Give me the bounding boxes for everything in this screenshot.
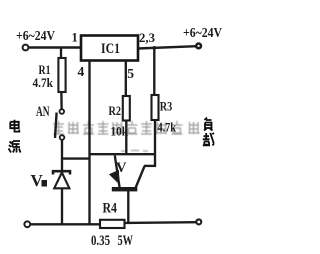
- resistor R3 body: [152, 95, 159, 120]
- svg-text:+6~24V: +6~24V: [183, 25, 222, 40]
- watermark text row (gray blurred company name): [53, 121, 200, 151]
- switch AN lever: [55, 113, 57, 139]
- wire: R3 bottom lead down: [154, 120, 156, 166]
- svg-text:4: 4: [78, 64, 85, 79]
- wire: switch bottom to zener: [61, 140, 63, 170]
- svg-text:5W: 5W: [118, 233, 134, 249]
- op IC1 box: [81, 36, 138, 61]
- resistor R4 body: [100, 220, 125, 228]
- svg-text:4.7k: 4.7k: [158, 120, 177, 135]
- svg-text:4.7k: 4.7k: [33, 75, 54, 90]
- wire: node row W1 (pin4 to R2/R3 bottoms): [90, 153, 155, 155]
- wire: collector corner horizontal: [144, 165, 156, 167]
- transistor V base bar: [112, 187, 138, 191]
- terminal: +V input left: [23, 45, 29, 51]
- svg-text:IC1: IC1: [101, 41, 120, 57]
- wire: bottom rail right segment: [125, 221, 197, 224]
- transistor V base lead down: [127, 191, 129, 224]
- wire: R1 bottom to switch: [60, 92, 63, 109]
- wire: left terminal to IC1 pin1: [28, 46, 81, 48]
- wire: R2 bottom lead to W1: [125, 121, 127, 155]
- terminal: bottom left: [24, 221, 30, 227]
- label 负载 (load) hand-drawn glyphs: [203, 118, 214, 146]
- terminal: +V output right: [196, 44, 201, 49]
- wire: zener anode to bottom rail: [61, 188, 63, 224]
- svg-text:R3: R3: [160, 99, 173, 114]
- svg-text:1: 1: [72, 31, 78, 45]
- terminal: bottom right: [196, 219, 201, 224]
- zener diode VW anode triangle: [54, 173, 69, 189]
- wire: R3 top lead from +V wire: [153, 48, 155, 95]
- svg-text:0.35: 0.35: [91, 233, 110, 249]
- wire: R1 top lead: [60, 48, 62, 59]
- svg-text:5: 5: [127, 66, 134, 81]
- transistor V emitter arrow: [109, 170, 120, 185]
- resistor R1 body: [58, 58, 65, 92]
- wire: IC1 pins 2,3 to right terminal: [138, 46, 196, 48]
- wire: node row W2 (zener top to pin4 line): [62, 157, 90, 159]
- wire: IC1 pin4 vertical down to bottom rail: [88, 61, 90, 225]
- svg-text:+6~24V: +6~24V: [16, 29, 55, 44]
- transistor V emitter line: [115, 156, 120, 188]
- svg-text:AN: AN: [36, 104, 50, 120]
- svg-text:R4: R4: [103, 200, 118, 216]
- svg-text:2,3: 2,3: [139, 30, 155, 45]
- resistor R2 body: [123, 96, 130, 121]
- switch AN top contact: [60, 109, 65, 114]
- transistor V collector line: [135, 166, 144, 189]
- wire: IC1 pin5 down to R2: [125, 61, 127, 97]
- node: junction of R3 on +V right wire: [152, 46, 156, 50]
- svg-text:R2: R2: [109, 103, 122, 118]
- zener diode VW cathode bar: [53, 171, 70, 174]
- switch AN bottom contact: [60, 135, 65, 140]
- label 电源 (power) hand-drawn glyphs: [9, 120, 21, 153]
- svg-text:V: V: [116, 160, 127, 176]
- wire: bottom rail left segment: [30, 223, 100, 225]
